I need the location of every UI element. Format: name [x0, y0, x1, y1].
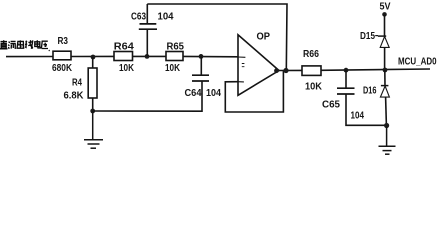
- 流: [8, 41, 16, 48]
- svg-text:R3: R3: [58, 36, 69, 47]
- svg-text:10K: 10K: [165, 63, 181, 74]
- capacitor C63: [131, 4, 174, 56]
- resistor R65: [165, 42, 184, 74]
- svg-text:104: 104: [158, 12, 174, 23]
- wire R3 to node A: [71, 55, 114, 57]
- svg-text:R65: R65: [167, 42, 185, 53]
- svg-text:R4: R4: [72, 78, 82, 89]
- svg-text:104: 104: [206, 88, 221, 99]
- svg-text:R66: R66: [303, 49, 319, 60]
- svg-text:C64: C64: [185, 88, 202, 99]
- resistor R64: [114, 42, 135, 74]
- svg-text:D16: D16: [363, 86, 377, 97]
- diode D16: [363, 86, 389, 126]
- wire C63 feedback top: [147, 4, 287, 71]
- svg-text:C65: C65: [322, 100, 340, 111]
- wire input: [6, 56, 53, 58]
- wire R65 to op-amp input: [183, 55, 238, 57]
- wire diode mid: [384, 70, 386, 86]
- wire inverting feedback loop: [225, 71, 283, 112]
- node output tip junction: [274, 68, 279, 73]
- 电: [35, 40, 41, 48]
- label 直流母线电压: [0, 40, 50, 51]
- svg-text:D15: D15: [360, 31, 375, 42]
- power 5V: [380, 2, 391, 17]
- wire output bus: [321, 69, 430, 70]
- wire R64 to node B: [133, 55, 167, 57]
- capacitor C64: [185, 56, 222, 99]
- svg-text:5V: 5V: [380, 2, 391, 13]
- svg-text:680K: 680K: [52, 63, 73, 74]
- resistor R4: [64, 57, 98, 111]
- node B junction: [145, 54, 150, 59]
- 线: [25, 40, 33, 49]
- svg-text:R64: R64: [114, 42, 134, 53]
- node C junction: [199, 54, 204, 59]
- capacitor C65: [322, 70, 364, 121]
- 直: [0, 40, 8, 49]
- ground right: [379, 126, 396, 155]
- node R4 bottom junction: [90, 109, 95, 114]
- wire C65 to ground node: [346, 94, 387, 125]
- node A junction: [91, 55, 96, 60]
- op-amp U1 OP: [238, 31, 279, 96]
- 母: [17, 40, 24, 49]
- svg-text:6.8K: 6.8K: [64, 91, 85, 102]
- svg-text:C63: C63: [131, 12, 146, 23]
- node D junction C65 tap: [344, 68, 349, 73]
- resistor R66: [302, 49, 323, 93]
- wire op-amp output: [279, 69, 302, 71]
- wire ground bus left (to C64 bottom): [93, 81, 202, 111]
- diode D15: [360, 15, 389, 68]
- resistor R3: [52, 36, 73, 74]
- node E junction diode tap: [383, 68, 388, 73]
- svg-text:OP: OP: [257, 31, 271, 43]
- node F junction ground: [384, 123, 389, 128]
- svg-text:MCU_AD0: MCU_AD0: [398, 57, 437, 68]
- svg-text:104: 104: [351, 111, 365, 122]
- svg-text:10K: 10K: [119, 63, 135, 74]
- node output feedback junction: [283, 68, 288, 73]
- ground left: [84, 111, 103, 148]
- 压: [41, 41, 49, 51]
- svg-text:10K: 10K: [305, 82, 323, 93]
